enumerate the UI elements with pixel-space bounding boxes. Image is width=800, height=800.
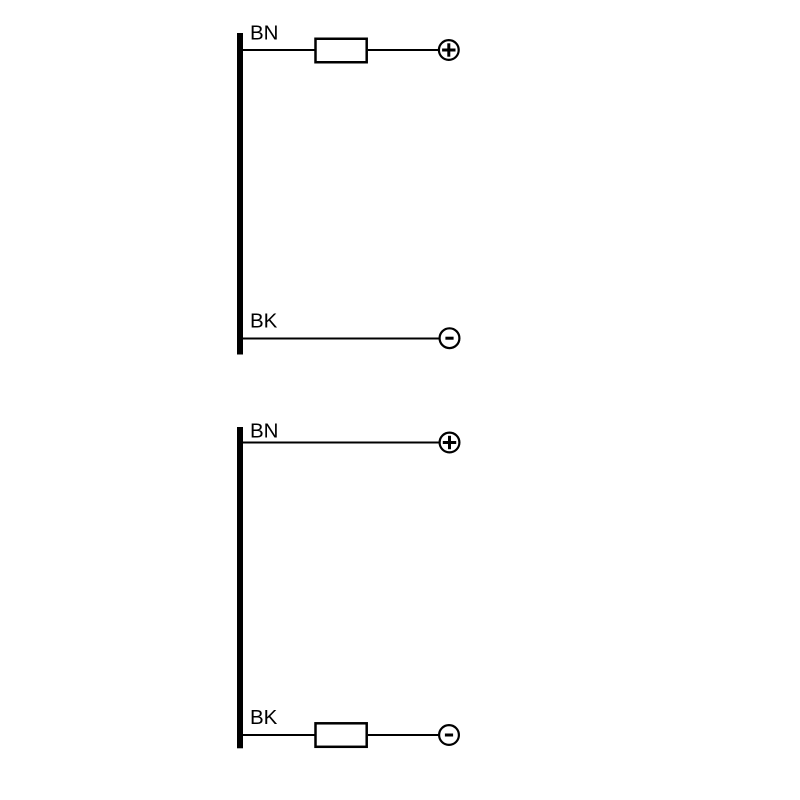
svg-text:BN: BN xyxy=(250,419,278,442)
svg-text:BK: BK xyxy=(250,310,278,333)
svg-text:BK: BK xyxy=(250,706,278,729)
svg-text:BN: BN xyxy=(250,22,278,45)
